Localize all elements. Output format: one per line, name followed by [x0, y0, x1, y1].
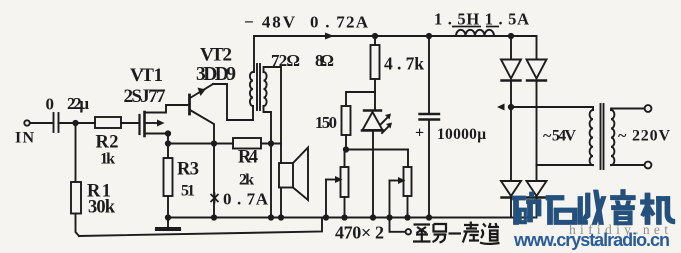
VT2 emitter arrowhead: [198, 88, 206, 97]
char dao: [480, 223, 500, 244]
wire L1 to bridge: [494, 35, 537, 37]
speaker BL body: [279, 163, 293, 188]
diode D5 triangle: [527, 181, 547, 196]
svg-text:+: +: [415, 125, 424, 142]
ground stem: [167, 218, 169, 228]
output transformer primary top lead from rail: [253, 36, 255, 72]
bridge rectifier left column: [510, 36, 512, 60]
junction rail / bridge left column: [509, 34, 513, 38]
capacitor C1 0.22u plate left: [53, 113, 55, 132]
wire RP2 bottom lead: [407, 196, 409, 218]
svg-text:1 . 5H 1 . 5A: 1 . 5H 1 . 5A: [434, 10, 529, 29]
wire C1 to node A: [59, 122, 96, 124]
junction RP2 wiper / ground rail: [387, 215, 391, 219]
ground bar: [157, 227, 179, 231]
wire secondary bottom to ground rail: [270, 144, 272, 218]
wire R4 right lead: [261, 143, 281, 145]
svg-text:IN: IN: [15, 130, 34, 147]
junction 150 bottom / pots top wire: [344, 147, 348, 151]
svg-text:~ 220V: ~ 220V: [618, 128, 670, 145]
junction R3 / ground rail: [166, 215, 170, 219]
junction RP2 / ground rail: [405, 215, 409, 219]
junction VT1 source / R3 column: [166, 131, 170, 135]
power transformer T2 primary winding 54V: [590, 110, 593, 165]
char kuang: [513, 196, 526, 200]
wire branch to 150 resistor: [346, 92, 375, 106]
watermark big chars (CJK drawn strokes): [513, 190, 675, 225]
svg-text:VT 2: VT 2: [200, 45, 232, 66]
terminal to other channel: [406, 229, 411, 234]
wire R1 bottom to lower rail: [76, 214, 80, 237]
junction secondary column / ground rail: [269, 215, 273, 219]
VT1 body arrow stub: [145, 122, 159, 124]
potentiometer RP1 470: [341, 167, 349, 197]
primary bottom lead: [252, 106, 254, 120]
junction collector column / ground rail: [212, 215, 216, 219]
LED D1 triangle: [363, 112, 383, 130]
wire 4.7k bottom lead: [374, 79, 376, 92]
junction LED column / ground rail: [371, 215, 375, 219]
wire R3 top lead: [167, 144, 169, 159]
wire lower ground return rail: [79, 218, 322, 237]
wire 4.7k top lead: [374, 36, 376, 45]
AC wire bottom: [537, 164, 594, 166]
svg-text:8Ω: 8Ω: [315, 51, 334, 70]
RP2 wiper lead: [390, 180, 400, 182]
secondary top jog to speaker column: [264, 67, 282, 163]
RP2 wiper arrowhead: [398, 177, 406, 184]
svg-text:470× 2: 470× 2: [335, 223, 384, 243]
svg-text:R 2: R 2: [96, 133, 119, 153]
svg-text:4 . 7k: 4 . 7k: [384, 54, 424, 74]
resistor R2: [95, 117, 121, 128]
bridge rectifier right column: [536, 36, 538, 60]
char yi: [449, 232, 462, 234]
LED D1 light arrow 2: [382, 126, 389, 133]
resistor R6 150: [342, 106, 351, 135]
svg-text:0 . 7A: 0 . 7A: [223, 190, 269, 209]
char zhi: [413, 225, 431, 242]
wire AC node right to D5: [536, 165, 538, 181]
svg-text:51: 51: [181, 183, 195, 200]
wire 220V bottom lead: [611, 164, 645, 166]
char ling: [433, 224, 447, 243]
svg-text:30k: 30k: [88, 198, 116, 218]
wire to LED anode: [374, 92, 376, 111]
diode D4 cathode bar: [527, 79, 546, 81]
output transformer primary winding 72ohm: [250, 72, 253, 106]
svg-text:2SJ77: 2SJ77: [124, 86, 167, 107]
wire rail to L1: [436, 35, 456, 37]
LED D1 cathode bar: [364, 109, 381, 111]
svg-text:72Ω: 72Ω: [271, 51, 300, 70]
label to-other-channel (CJK drawn strokes): [413, 222, 500, 244]
top rail -48V: [254, 35, 537, 37]
char yin: [621, 190, 625, 197]
current arrow on AC wire: [497, 104, 505, 111]
potentiometer RP2 470: [404, 167, 412, 196]
diode D2 cathode bar: [502, 79, 521, 81]
svg-text:www.crystalradio.cn: www.crystalradio.cn: [513, 230, 670, 250]
wire VT1 source down to R4 line: [167, 134, 169, 144]
wire D3 to ground rail: [510, 198, 512, 218]
wire VT2 collector column to rail: [213, 144, 215, 218]
wire C3 bottom lead: [428, 120, 430, 218]
wire R1 top: [75, 123, 77, 182]
power transformer T2 secondary winding 220V: [611, 110, 614, 165]
wire LED to ground rail: [372, 131, 374, 218]
star marker on wire: [211, 193, 219, 204]
resistor R4: [233, 138, 261, 149]
VT2 collector diagonal: [190, 110, 214, 144]
svg-text:2k: 2k: [239, 172, 254, 189]
VT1 drain lead: [145, 105, 189, 113]
wire T2 primary top stub: [592, 107, 594, 110]
wire R3 bottom lead: [167, 196, 169, 218]
junction RP1 wiper / ground rail: [324, 215, 328, 219]
diode D4 triangle: [527, 60, 547, 79]
svg-text:R 4: R 4: [238, 148, 258, 168]
transistor VT2 3DD9 base bar: [188, 95, 191, 114]
svg-text:− 48V: − 48V: [244, 13, 296, 32]
RP1 wiper lead: [326, 179, 336, 181]
svg-text:1k: 1k: [100, 151, 115, 168]
VT1 source lead: [145, 133, 169, 135]
svg-text:0 . 72A: 0 . 72A: [310, 13, 369, 32]
node A: [73, 121, 77, 125]
capacitor C1 0.22u plate right: [58, 113, 60, 132]
transformer core: [256, 64, 258, 110]
RP1 wiper arrowhead: [335, 176, 343, 183]
wire to other channel terminal: [390, 218, 406, 232]
wire D5 to ground rail: [536, 198, 538, 218]
diode D5 cathode bar: [527, 196, 546, 198]
svg-text:3DD9: 3DD9: [196, 64, 236, 85]
transistor VT1 channel bar: [143, 112, 146, 136]
junction speaker column / ground rail: [279, 215, 283, 219]
svg-text:R 3: R 3: [177, 160, 199, 180]
diode D3 triangle: [501, 181, 521, 196]
resistor R3: [164, 158, 173, 196]
VT2 emitter wire to transformer: [213, 84, 253, 120]
char ji: [641, 200, 655, 204]
T2 core: [600, 104, 602, 169]
capacitor C3 10000u plate bottom: [420, 118, 440, 120]
wire 220V top lead: [611, 109, 645, 111]
wire D4 to AC node right: [536, 81, 538, 166]
svg-text:~ 54V: ~ 54V: [543, 128, 576, 145]
output transformer secondary winding 8ohm: [264, 72, 267, 106]
ground rail: [168, 217, 535, 219]
LED D1 anode bar: [362, 129, 383, 132]
terminal 220V top: [645, 105, 652, 112]
svg-text:150: 150: [315, 113, 337, 132]
VT1 body arrowhead: [157, 120, 165, 127]
LED D1 light arrow 1: [381, 117, 388, 124]
char shou: [578, 197, 583, 222]
wire speaker bottom: [280, 188, 282, 218]
wire R2 to VT1 gate: [121, 122, 139, 124]
junction VT2 collector / R4 line: [212, 141, 216, 145]
diode D3 cathode bar: [502, 196, 521, 198]
inductor L1 1.5H coil: [456, 30, 494, 36]
diode D2 triangle: [501, 60, 521, 79]
wire pots top link: [346, 150, 408, 168]
junction C3 / ground rail: [427, 215, 431, 219]
svg-text:0: 0: [46, 95, 55, 114]
wire RP1 bottom lead: [344, 197, 346, 218]
transistor VT1 2SJ77 gate bar: [138, 115, 140, 134]
resistor R5 4.7k: [371, 45, 380, 79]
wire IN to C1: [30, 122, 52, 124]
wire AC node to D3: [510, 107, 512, 181]
wire R4 left lead: [168, 143, 233, 145]
input terminal IN: [24, 120, 29, 125]
capacitor C3 10000u plate top: [420, 113, 440, 115]
junction rail / C3 column: [427, 34, 431, 38]
junction R3 top / R4 line: [166, 141, 170, 145]
wire D2 to AC node: [510, 81, 512, 108]
wire C3 top lead: [428, 36, 430, 114]
char shi: [546, 196, 564, 201]
speaker BL cone: [293, 148, 308, 201]
secondary bottom jog: [264, 106, 272, 144]
junction RP1 / ground rail: [342, 215, 346, 219]
wire RP1 wiper to ground rail: [325, 180, 327, 218]
junction rail / 4.7k: [373, 34, 377, 38]
current arrow 0.72A: [325, 33, 334, 40]
AC wire top: [511, 106, 593, 108]
resistor R1: [71, 182, 81, 214]
svg-text:10000μ: 10000μ: [437, 126, 486, 143]
wire RP1 top lead: [344, 150, 346, 168]
terminal 220V bottom: [645, 162, 652, 169]
junction R4 right / secondary column: [269, 141, 273, 145]
VT2 emitter diagonal: [190, 84, 213, 98]
wire 150 bottom lead: [345, 135, 347, 150]
junction AC node left: [509, 105, 513, 109]
svg-text:22μ: 22μ: [67, 94, 89, 113]
svg-text:VT 1: VT 1: [130, 65, 163, 86]
wire RP2 wiper to ground rail: [389, 181, 391, 218]
char sheng: [463, 222, 479, 243]
